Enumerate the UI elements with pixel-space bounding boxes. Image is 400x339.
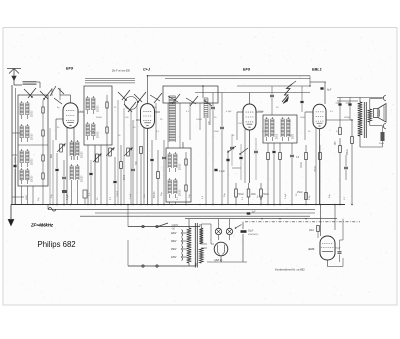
svg-text:5000: 5000 bbox=[277, 133, 279, 139]
svg-text:20000: 20000 bbox=[32, 133, 34, 140]
svg-text:2MΩ: 2MΩ bbox=[309, 230, 314, 232]
svg-text:20000: 20000 bbox=[32, 110, 34, 117]
svg-text:5000: 5000 bbox=[293, 133, 295, 139]
svg-text:150Ω: 150Ω bbox=[315, 166, 317, 172]
svg-text:50000: 50000 bbox=[344, 117, 351, 119]
svg-text:4kΩ: 4kΩ bbox=[51, 154, 53, 158]
svg-text:150V: 150V bbox=[171, 249, 177, 251]
svg-text:20000: 20000 bbox=[98, 105, 100, 112]
svg-text:Philips 682: Philips 682 bbox=[38, 240, 76, 249]
svg-text:8µF: 8µF bbox=[327, 89, 332, 92]
svg-text:0,1µF: 0,1µF bbox=[130, 193, 132, 199]
svg-text:700Ω: 700Ω bbox=[301, 162, 303, 168]
svg-text:25000: 25000 bbox=[258, 111, 265, 113]
svg-text:0,5µ: 0,5µ bbox=[309, 195, 311, 200]
svg-text:50µF: 50µF bbox=[336, 248, 342, 250]
svg-text:125V: 125V bbox=[171, 257, 177, 259]
svg-text:0,1µF: 0,1µF bbox=[67, 193, 69, 200]
svg-text:200V: 200V bbox=[171, 241, 177, 243]
svg-text:1MΩ: 1MΩ bbox=[251, 194, 256, 196]
svg-text:EF9: EF9 bbox=[66, 67, 74, 71]
svg-text:EM4: EM4 bbox=[309, 247, 315, 251]
svg-text:20000: 20000 bbox=[32, 175, 34, 182]
svg-text:50µF: 50µF bbox=[379, 143, 385, 145]
svg-text:20000: 20000 bbox=[180, 189, 182, 196]
svg-text:1µF: 1µF bbox=[252, 212, 257, 214]
svg-text:20000: 20000 bbox=[82, 151, 84, 158]
svg-text:25kΩ: 25kΩ bbox=[347, 149, 349, 155]
svg-text:20000: 20000 bbox=[180, 163, 182, 170]
svg-text:450(350)V: 450(350)V bbox=[248, 234, 259, 236]
svg-text:20000: 20000 bbox=[32, 158, 34, 165]
svg-text:20000: 20000 bbox=[98, 131, 100, 138]
svg-text:220V: 220V bbox=[171, 233, 177, 235]
svg-text:Kundendienst-Nr. ca 682: Kundendienst-Nr. ca 682 bbox=[275, 268, 305, 272]
svg-text:50kΩ: 50kΩ bbox=[238, 194, 244, 196]
svg-text:50µF: 50µF bbox=[248, 230, 254, 233]
svg-text:10000: 10000 bbox=[196, 119, 203, 121]
svg-text:5000: 5000 bbox=[124, 174, 126, 180]
svg-text:≈220V: ≈220V bbox=[171, 224, 179, 227]
svg-text:C+J: C+J bbox=[143, 68, 151, 72]
svg-text:2µF: 2µF bbox=[336, 102, 340, 104]
svg-text:ZF=486kHz: ZF=486kHz bbox=[30, 223, 54, 228]
svg-text:0,1µF: 0,1µF bbox=[285, 193, 287, 199]
svg-text:50000: 50000 bbox=[154, 191, 156, 198]
svg-text:EBL1: EBL1 bbox=[312, 68, 322, 72]
svg-text:HÖ: HÖ bbox=[334, 141, 337, 145]
svg-text:20000: 20000 bbox=[82, 175, 84, 182]
svg-text:Zkr.F m/ sec 650: Zkr.F m/ sec 650 bbox=[111, 70, 130, 73]
svg-text:50000: 50000 bbox=[96, 117, 103, 119]
svg-text:REG: REG bbox=[261, 195, 263, 200]
svg-text:50000: 50000 bbox=[117, 190, 119, 197]
svg-text:EF9: EF9 bbox=[243, 68, 251, 72]
svg-text:0,1µF: 0,1µF bbox=[226, 111, 232, 113]
svg-text:0,1µF: 0,1µF bbox=[219, 171, 226, 173]
svg-text:2µF: 2µF bbox=[346, 102, 350, 104]
